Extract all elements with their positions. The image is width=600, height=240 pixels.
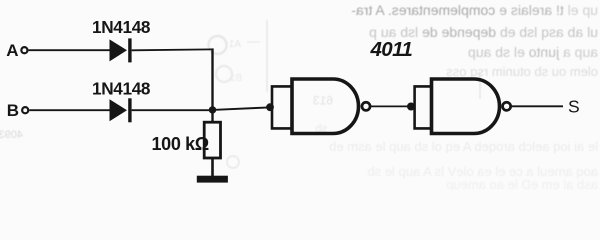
svg-text:B: B: [7, 101, 19, 120]
svg-text:4011: 4011: [370, 38, 413, 61]
svg-text:100 kΩ: 100 kΩ: [152, 134, 209, 154]
svg-text:B1: B1: [229, 73, 242, 84]
svg-text:1N4148: 1N4148: [92, 17, 151, 37]
svg-text:aup a junto el sb aup: aup a junto el sb aup: [468, 44, 598, 60]
svg-text:S: S: [568, 96, 580, 116]
svg-text:1N4148: 1N4148: [92, 79, 151, 99]
svg-text:asb al em eD le ao ameup: asb al em eD le ao ameup: [446, 177, 598, 191]
svg-text:up el t! arelais e complementa: up el t! arelais e complementares. A tra…: [351, 2, 598, 18]
svg-text:4093: 4093: [0, 129, 23, 141]
svg-text:olem ou sb otunim rsq oss: olem ou sb otunim rsq oss: [446, 64, 598, 79]
svg-text:613: 613: [313, 94, 333, 108]
svg-text:A1: A1: [228, 39, 241, 50]
svg-text:A: A: [6, 41, 18, 60]
svg-text:le ai ioq aelcb aroqeb A eq: le ai ioq aelcb aroqeb A eq ol sb aup le…: [329, 139, 598, 154]
